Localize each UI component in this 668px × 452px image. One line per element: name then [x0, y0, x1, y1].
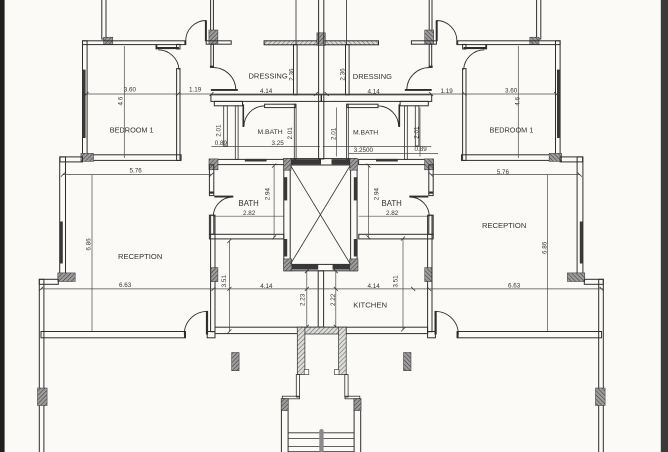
- bedroom left exterior wall: [83, 41, 88, 158]
- bedroom bottom wall: [83, 155, 182, 161]
- bedroom right wall: [177, 69, 180, 161]
- stairwell bottom wall dark segments: [291, 264, 319, 269]
- jog walls to stair enclosure: [282, 396, 299, 399]
- wall to outer lower-left: [39, 279, 58, 284]
- svg-text:4.14: 4.14: [368, 89, 381, 96]
- vestibule hatched top band: [297, 327, 346, 334]
- svg-text:BATH: BATH: [239, 199, 259, 208]
- svg-text:2.01: 2.01: [216, 124, 223, 137]
- svg-text:6.86: 6.86: [86, 238, 93, 251]
- mbath door leaf: [243, 104, 245, 127]
- svg-text:3.60: 3.60: [124, 87, 137, 94]
- dim ticks: [39, 92, 318, 329]
- stair right wall: [354, 399, 361, 452]
- svg-text:2.01: 2.01: [287, 127, 294, 140]
- right apartment text labels: [331, 68, 549, 310]
- reception jog wall: [60, 157, 83, 162]
- below vestibule right thin wall: [345, 375, 348, 398]
- dim 4.6 vertical: [123, 46, 125, 158]
- right 2.01 dim lines: [336, 108, 338, 157]
- door jamb caps: [184, 41, 186, 45]
- column top-left on top wall: [104, 37, 113, 44]
- reception bottom wall: [41, 332, 186, 338]
- reception window band: [60, 222, 63, 264]
- dim 2.23 vertical: [306, 271, 308, 327]
- column on party wall at top junction: [317, 33, 325, 46]
- svg-text:2.01: 2.01: [414, 126, 421, 139]
- svg-text:2.36: 2.36: [339, 68, 346, 81]
- reception door leaf: [206, 311, 208, 335]
- left apartment text labels: [86, 68, 338, 306]
- bedroom window band: [83, 70, 86, 138]
- outer left wall: [39, 279, 44, 452]
- dim 3.51 vertical left: [228, 241, 230, 331]
- bedroom partition stub at top: [177, 44, 180, 49]
- svg-text:3.51: 3.51: [392, 275, 399, 288]
- svg-text:4.6: 4.6: [117, 96, 124, 105]
- vestibule right leg: [339, 327, 347, 374]
- bath door leaf: [214, 196, 233, 198]
- mbath door arc: [244, 106, 265, 127]
- dim 3.25: [211, 146, 320, 148]
- dressing door leaf: [211, 89, 238, 91]
- bedroom door arc: [158, 50, 179, 70]
- stairwell corner columns: [284, 158, 292, 170]
- stairwell outer box: [284, 159, 357, 271]
- bedroom door leaf: [157, 47, 180, 49]
- bath top wall: [209, 159, 284, 164]
- svg-text:3.51: 3.51: [221, 275, 228, 288]
- svg-text:2.23: 2.23: [300, 293, 307, 306]
- niche wall a: [224, 106, 228, 146]
- svg-text:2.82: 2.82: [243, 210, 256, 217]
- svg-text:6.63: 6.63: [119, 282, 132, 289]
- center bottom wall half: [215, 327, 321, 333]
- svg-text:2.22: 2.22: [330, 293, 337, 306]
- stairwell X diagonal 2: [290, 165, 350, 264]
- wall step below: [214, 101, 242, 105]
- stair central rail: [319, 429, 323, 452]
- column on corridor wall: [211, 268, 218, 282]
- free column in lower area: [232, 353, 240, 371]
- vestibule left leg: [297, 327, 305, 374]
- svg-text:2.94: 2.94: [264, 188, 271, 201]
- stair wall columns: [281, 399, 288, 411]
- dim line bottom row y289: [41, 288, 604, 290]
- svg-text:1.19: 1.19: [441, 88, 454, 95]
- mirrored right apartment: [321, 0, 605, 452]
- stairwell inner box: [290, 165, 350, 264]
- top exterior wall over bedroom: [83, 41, 186, 45]
- dressing door jamb wall: [211, 44, 214, 67]
- thin terrace line x296: [295, 0, 297, 44]
- party wall center top: [319, 0, 324, 159]
- dressing door arc: [213, 68, 235, 90]
- bath left wall: [209, 165, 213, 196]
- svg-text:2.82: 2.82: [386, 210, 399, 217]
- column bedroom bottom-left: [81, 153, 94, 161]
- terrace wall upper-left vertical: [102, 0, 106, 39]
- svg-text:2.36: 2.36: [288, 68, 295, 81]
- niche wall b: [235, 106, 238, 160]
- top wall center segment: [264, 41, 321, 45]
- terrace door leaf: [205, 20, 207, 41]
- reception door arc: [184, 311, 207, 334]
- svg-text:4.14: 4.14: [260, 283, 273, 290]
- svg-text:KITCHEN: KITCHEN: [353, 301, 387, 310]
- right 3.2500 dim line: [348, 153, 438, 155]
- svg-text:3.60: 3.60: [505, 88, 518, 95]
- stair left wall: [281, 399, 288, 452]
- below vestibule left thin wall: [296, 375, 299, 398]
- svg-text:BEDROOM 1: BEDROOM 1: [110, 126, 154, 135]
- column at dressing top: [209, 30, 218, 44]
- bath door arc: [213, 197, 233, 216]
- svg-text:M.BATH: M.BATH: [258, 129, 283, 136]
- svg-text:3.25: 3.25: [272, 140, 285, 147]
- svg-text:2.94: 2.94: [373, 188, 380, 201]
- top wall segment right of terrace door: [206, 41, 231, 44]
- bath top window bar: [245, 159, 267, 162]
- svg-text:4.14: 4.14: [368, 283, 381, 290]
- dim 6.86 vertical left: [91, 175, 93, 331]
- dim 2.94 vertical: [273, 166, 275, 238]
- corridor wall (reception/kitchen divider): [211, 215, 215, 332]
- party wall below stairwell: [318, 271, 323, 327]
- reception left exterior wall: [60, 157, 66, 277]
- terrace door arc: [186, 21, 206, 42]
- stairwell side window bands: [284, 177, 287, 200]
- wall right of reception door: [207, 332, 215, 338]
- column on outer left wall: [38, 388, 48, 406]
- terrace divider wall vertical x211: [211, 0, 214, 31]
- svg-text:6.86: 6.86: [542, 241, 549, 254]
- mbath right wall: [294, 104, 296, 159]
- dim 3.51 vertical right: [402, 239, 404, 330]
- right black border bar: [661, 0, 668, 452]
- svg-text:DRESSING: DRESSING: [249, 71, 288, 80]
- svg-text:4.14: 4.14: [260, 88, 273, 95]
- column bath top-left: [209, 159, 218, 170]
- bath left wall lower piece: [209, 215, 213, 234]
- dim line top row y94: [85, 93, 559, 95]
- svg-text:2.01: 2.01: [331, 127, 338, 140]
- column reception bottom-left: [58, 273, 75, 282]
- corridor top wall (dressing bottom): [211, 95, 322, 102]
- stairwell top wall dark segments: [291, 159, 322, 164]
- svg-text:M.BATH: M.BATH: [353, 130, 378, 137]
- mbath top wall: [265, 104, 296, 107]
- svg-text:0.89: 0.89: [215, 140, 228, 147]
- svg-text:5.76: 5.76: [130, 168, 143, 175]
- left black border bar: [0, 0, 5, 452]
- bath bottom wall: [209, 234, 283, 239]
- dim 6.86 vertical right: [547, 175, 549, 331]
- svg-text:DRESSING: DRESSING: [353, 72, 392, 81]
- vestibule feet notches: [304, 370, 309, 375]
- svg-text:6.63: 6.63: [508, 283, 521, 290]
- svg-text:BEDROOM 1: BEDROOM 1: [490, 125, 534, 134]
- dim 5.76: [63, 174, 212, 176]
- svg-text:RECEPTION: RECEPTION: [118, 252, 162, 261]
- svg-text:4.6: 4.6: [515, 97, 522, 106]
- svg-text:0.89: 0.89: [415, 146, 428, 153]
- stairwell X diagonal 1: [290, 165, 350, 264]
- svg-text:5.76: 5.76: [497, 169, 510, 176]
- dressing partition wall x295: [294, 45, 298, 95]
- svg-text:3.2500: 3.2500: [354, 147, 374, 154]
- svg-text:RECEPTION: RECEPTION: [482, 221, 526, 230]
- dim 2.82: [214, 215, 284, 217]
- stair treads: [288, 432, 354, 434]
- svg-text:1.19: 1.19: [189, 87, 202, 94]
- svg-text:BATH: BATH: [382, 199, 402, 208]
